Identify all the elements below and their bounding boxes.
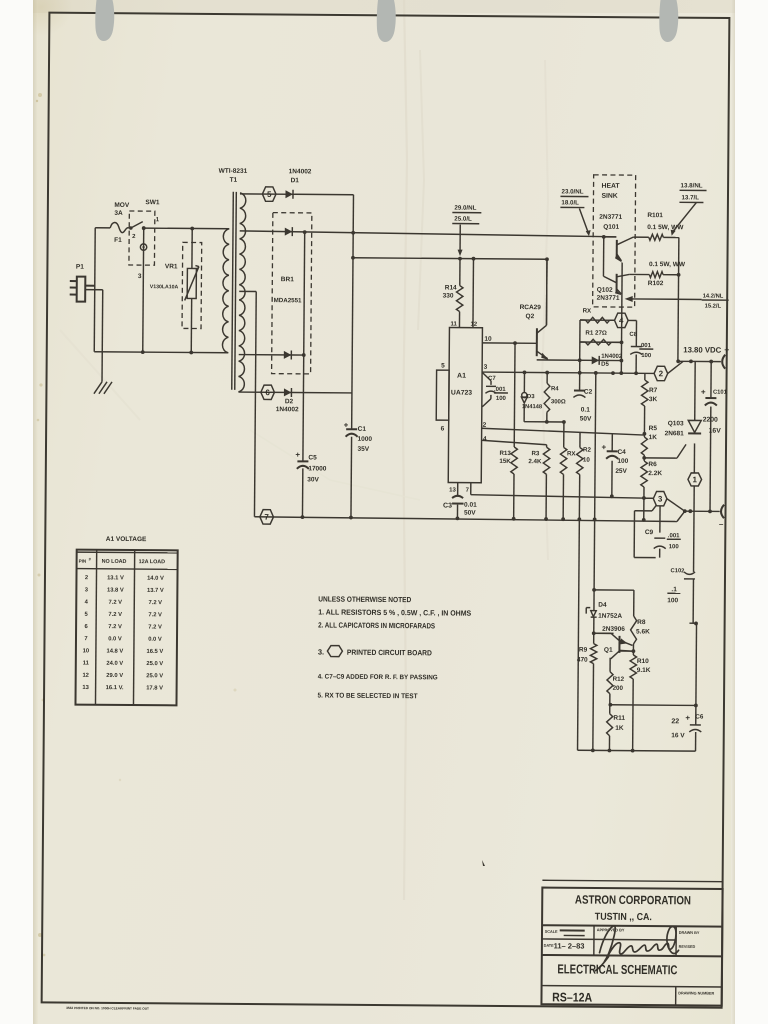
svg-text:25V: 25V (615, 468, 627, 475)
svg-text:D5: D5 (601, 362, 609, 368)
svg-text:13.7/L: 13.7/L (681, 194, 699, 201)
svg-text:.1: .1 (671, 586, 677, 593)
svg-text:Q102: Q102 (597, 287, 613, 294)
svg-text:RS–12A: RS–12A (552, 990, 592, 1004)
svg-text:100: 100 (496, 396, 507, 402)
svg-text:2.4K: 2.4K (528, 458, 542, 465)
svg-text:+: + (701, 387, 706, 396)
svg-text:10: 10 (583, 457, 590, 464)
svg-text:SINK: SINK (601, 193, 617, 200)
svg-text:15.2/L: 15.2/L (705, 304, 722, 310)
svg-text:1K: 1K (615, 725, 624, 732)
svg-text:VR1: VR1 (165, 263, 178, 270)
svg-text:R6: R6 (648, 461, 657, 468)
svg-text:1: 1 (156, 217, 160, 223)
svg-text:0.1: 0.1 (581, 407, 590, 414)
svg-text:13.7 V: 13.7 V (147, 588, 164, 594)
svg-text:29.0/NL: 29.0/NL (454, 205, 476, 212)
svg-text:+: + (724, 345, 729, 355)
svg-text:200: 200 (613, 685, 624, 692)
svg-text:2: 2 (132, 234, 136, 240)
svg-text:9.1K: 9.1K (637, 667, 651, 674)
svg-text:6: 6 (84, 624, 88, 630)
svg-text:2N3906: 2N3906 (602, 626, 625, 633)
svg-text:2: 2 (659, 369, 664, 378)
svg-text:100: 100 (641, 353, 652, 359)
svg-text:7.2 V: 7.2 V (148, 624, 162, 630)
svg-text:50V: 50V (580, 416, 592, 423)
svg-text:24.0 V: 24.0 V (106, 661, 123, 667)
svg-text:PIN: PIN (79, 559, 87, 564)
svg-text:Q1: Q1 (604, 647, 613, 654)
svg-text:R10: R10 (637, 658, 649, 665)
svg-text:DATE: DATE (544, 944, 555, 948)
svg-text:+: + (601, 443, 606, 452)
svg-text:17.8 V: 17.8 V (146, 685, 163, 691)
svg-text:R3: R3 (531, 450, 540, 457)
svg-text:2N3771: 2N3771 (599, 214, 622, 221)
svg-text:2. ALL CAPICATORS IN MICROFAR: 2. ALL CAPICATORS IN MICROFARADS (318, 620, 435, 630)
svg-text:7.2 V: 7.2 V (148, 600, 162, 606)
svg-text:50V: 50V (464, 510, 476, 517)
svg-text:12A LOAD: 12A LOAD (139, 559, 166, 565)
svg-text:TUSTIN ,, CA.: TUSTIN ,, CA. (595, 912, 652, 923)
svg-text:1N4002: 1N4002 (601, 354, 623, 360)
svg-text:4: 4 (85, 600, 89, 606)
svg-text:ASTRON CORPORATION: ASTRON CORPORATION (575, 893, 691, 908)
svg-text:7.2 V: 7.2 V (108, 624, 122, 630)
svg-text:0.0 V: 0.0 V (108, 636, 122, 642)
svg-text:100: 100 (669, 544, 680, 550)
svg-text:16 V: 16 V (671, 732, 685, 739)
svg-text:C9: C9 (645, 529, 654, 536)
svg-text:R14: R14 (445, 284, 457, 291)
svg-text:Q101: Q101 (603, 224, 619, 231)
svg-text:D2: D2 (285, 398, 294, 405)
svg-text:F1: F1 (114, 237, 122, 244)
svg-text:13.8 V: 13.8 V (107, 588, 124, 594)
svg-text:14.2/NL: 14.2/NL (703, 293, 724, 299)
svg-text:DRAWING NUMBER: DRAWING NUMBER (678, 991, 714, 995)
svg-text:C102: C102 (671, 568, 685, 574)
svg-text:0.01: 0.01 (464, 502, 477, 509)
svg-text:10: 10 (83, 648, 90, 654)
svg-text:WTI-8231: WTI-8231 (219, 168, 248, 175)
svg-text:HEAT: HEAT (602, 183, 621, 190)
svg-text:UNLESS OTHERWISE NOTED: UNLESS OTHERWISE NOTED (318, 594, 412, 604)
svg-text:3A: 3A (114, 210, 123, 217)
svg-text:D1: D1 (291, 177, 300, 184)
svg-text:5. RX TO BE SELECTED IN TEST: 5. RX TO BE SELECTED IN TEST (318, 692, 419, 700)
svg-text:22: 22 (671, 718, 679, 725)
svg-text:MDA2551: MDA2551 (274, 297, 302, 304)
svg-text:C5: C5 (308, 454, 317, 461)
svg-text:0.0 V: 0.0 V (148, 637, 162, 643)
svg-text:R13: R13 (499, 450, 511, 457)
svg-text:R5: R5 (649, 425, 658, 432)
svg-text:1: 1 (693, 475, 698, 484)
svg-text:.001: .001 (494, 387, 506, 393)
svg-text:MOV: MOV (114, 202, 130, 209)
svg-text:29.0 V: 29.0 V (106, 673, 123, 679)
svg-text:BR1: BR1 (281, 276, 294, 283)
svg-text:D3: D3 (527, 394, 535, 400)
svg-text:25.0/L: 25.0/L (454, 216, 472, 223)
svg-text:16.1 V.: 16.1 V. (106, 685, 124, 691)
svg-text:R1 27Ω: R1 27Ω (585, 330, 607, 337)
svg-text:PRINTED CIRCUIT BOARD: PRINTED CIRCUIT BOARD (347, 648, 433, 658)
svg-text:4: 4 (483, 436, 487, 443)
svg-text:330: 330 (443, 292, 454, 299)
svg-text:3: 3 (85, 587, 89, 593)
svg-text:RCA29: RCA29 (520, 304, 542, 311)
svg-text:100: 100 (667, 597, 678, 604)
svg-text:–: – (719, 520, 724, 529)
svg-text:.001: .001 (639, 343, 651, 349)
svg-text:100: 100 (617, 458, 628, 465)
svg-text:T1: T1 (230, 177, 238, 184)
svg-text:2: 2 (85, 575, 88, 581)
svg-text:12: 12 (470, 322, 477, 328)
svg-text:R102: R102 (648, 280, 664, 287)
svg-text:R11: R11 (613, 715, 625, 722)
svg-text:C8: C8 (629, 332, 637, 338)
svg-text:5: 5 (267, 190, 272, 199)
svg-text:13.1 V: 13.1 V (107, 575, 124, 581)
svg-text:3: 3 (658, 494, 663, 503)
svg-text:25.0 V: 25.0 V (146, 661, 163, 667)
svg-text:Q103: Q103 (668, 420, 684, 427)
svg-text:1N4148: 1N4148 (522, 404, 543, 410)
svg-text:R4: R4 (551, 386, 559, 392)
svg-text:3: 3 (484, 364, 488, 371)
svg-text:DRAWN BY: DRAWN BY (679, 931, 700, 935)
svg-text:300Ω: 300Ω (551, 399, 566, 405)
svg-text:1N4002: 1N4002 (289, 168, 312, 175)
svg-text:16V: 16V (709, 428, 722, 435)
svg-text:10: 10 (484, 336, 492, 343)
svg-text:2: 2 (483, 422, 487, 429)
svg-text:NO LOAD: NO LOAD (102, 559, 127, 565)
svg-text:15K: 15K (499, 458, 511, 465)
svg-text:23.0/NL: 23.0/NL (561, 188, 583, 195)
svg-text:UA723: UA723 (451, 390, 472, 397)
svg-text:R12: R12 (613, 676, 625, 683)
svg-text:R9: R9 (579, 647, 588, 654)
svg-text:25.0 V: 25.0 V (146, 673, 163, 679)
svg-text:4: 4 (619, 316, 624, 325)
svg-text:C6: C6 (695, 713, 704, 720)
svg-text:7: 7 (84, 636, 87, 642)
svg-text:A1: A1 (457, 373, 466, 380)
svg-text:SCALE: SCALE (545, 930, 558, 934)
svg-text:17000: 17000 (308, 465, 327, 472)
svg-text:P1: P1 (76, 264, 84, 271)
svg-text:SW1: SW1 (145, 199, 160, 206)
svg-text:C4: C4 (617, 449, 626, 456)
svg-text:7.2 V: 7.2 V (108, 612, 122, 618)
svg-text:.001: .001 (668, 533, 680, 539)
svg-text:+: + (295, 450, 300, 459)
svg-text:ELECTRICAL SCHEMATIC: ELECTRICAL SCHEMATIC (557, 961, 678, 977)
svg-text:C101: C101 (713, 390, 728, 396)
svg-text:12: 12 (82, 673, 89, 679)
svg-text:5.6K: 5.6K (636, 628, 650, 635)
svg-text:11: 11 (450, 322, 457, 328)
svg-text:13.80 VDC: 13.80 VDC (683, 345, 721, 354)
svg-text:13: 13 (449, 488, 456, 494)
svg-text:A1 VOLTAGE: A1 VOLTAGE (106, 536, 147, 543)
svg-text:11: 11 (83, 661, 90, 667)
svg-text:35V: 35V (357, 446, 369, 453)
svg-text:6: 6 (265, 388, 270, 397)
svg-text:R101: R101 (647, 212, 663, 219)
svg-text:14.8 V: 14.8 V (106, 649, 123, 655)
svg-text:11– 2–83: 11– 2–83 (554, 941, 585, 950)
svg-text:REVISED: REVISED (679, 945, 696, 949)
svg-text:5: 5 (85, 612, 89, 618)
svg-text:C7: C7 (488, 376, 496, 382)
svg-text:4. C7–C9 ADDED FOR R. F. BY: 4. C7–C9 ADDED FOR R. F. BY PASSING (318, 673, 438, 681)
svg-text:7.2 V: 7.2 V (148, 612, 162, 618)
svg-text:7.2 V: 7.2 V (108, 600, 122, 606)
svg-text:470: 470 (577, 657, 588, 664)
svg-text:6: 6 (441, 425, 445, 432)
svg-text:7: 7 (264, 513, 269, 522)
svg-text:RX: RX (583, 308, 593, 315)
svg-text:0.1 5W, WW: 0.1 5W, WW (649, 261, 686, 268)
svg-text:#: # (89, 557, 92, 562)
svg-text:C1: C1 (358, 426, 367, 433)
svg-text:13.8/NL: 13.8/NL (681, 182, 703, 189)
svg-text:2N3771: 2N3771 (597, 295, 620, 302)
svg-text:3K: 3K (649, 396, 658, 403)
svg-text:1K: 1K (649, 434, 658, 441)
svg-text:R2: R2 (583, 447, 592, 454)
svg-text:RX: RX (567, 450, 577, 457)
svg-text:1N4002: 1N4002 (276, 406, 299, 413)
svg-text:3.: 3. (318, 647, 324, 656)
svg-text:D4: D4 (598, 602, 607, 609)
svg-text:30V: 30V (307, 476, 319, 483)
svg-text:2200: 2200 (703, 417, 718, 424)
svg-text:14.0 V: 14.0 V (147, 576, 164, 582)
svg-text:Q2: Q2 (526, 313, 535, 320)
svg-text:1. ALL RESISTORS 5 % , 0.5W ,: 1. ALL RESISTORS 5 % , 0.5W , C.F. , IN … (318, 607, 471, 617)
svg-text:3: 3 (138, 273, 142, 280)
svg-text:2N681: 2N681 (665, 430, 685, 437)
svg-text:1N752A: 1N752A (598, 613, 622, 620)
svg-text:+: + (685, 713, 690, 722)
svg-text:V130LA10A: V130LA10A (150, 284, 179, 290)
svg-text:2.2K: 2.2K (648, 470, 662, 477)
svg-text:18.0/L: 18.0/L (561, 199, 579, 206)
svg-text:1000: 1000 (358, 436, 373, 443)
svg-text:3562 PRINTED ON NO. 1000H C: 3562 PRINTED ON NO. 1000H CLEARPRINT FAD… (66, 1006, 149, 1011)
svg-text:16.5 V: 16.5 V (146, 649, 163, 655)
svg-text:5: 5 (441, 362, 445, 369)
svg-text:C3: C3 (443, 502, 452, 509)
svg-text:R7: R7 (649, 387, 658, 394)
svg-text:R8: R8 (637, 619, 646, 626)
svg-text:7: 7 (466, 488, 470, 494)
svg-text:13: 13 (82, 685, 89, 691)
svg-text:C2: C2 (584, 389, 593, 396)
